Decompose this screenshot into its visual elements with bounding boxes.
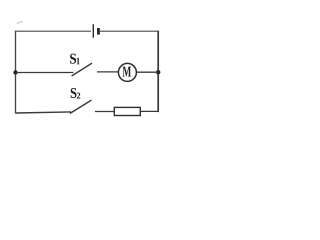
node left junction xyxy=(13,70,17,74)
label S1 xyxy=(70,54,76,64)
resistor R body xyxy=(114,107,140,115)
node right junction xyxy=(156,70,160,74)
motor U1 letter M xyxy=(123,67,131,77)
switch S1 blade xyxy=(72,63,92,76)
label S2 xyxy=(71,88,77,98)
battery cell long plate (+) xyxy=(92,24,94,38)
battery cell short thick plate (-) xyxy=(97,28,100,35)
wire bottom-center segment xyxy=(95,111,114,113)
switch S2 blade xyxy=(70,100,92,113)
wire top-left segment xyxy=(16,30,92,32)
wire top-right segment xyxy=(100,30,158,32)
wire bottom-right segment xyxy=(140,110,158,112)
wire middle-center segment xyxy=(97,71,118,73)
wire middle-right segment xyxy=(137,71,158,73)
wire bottom-left segment xyxy=(16,112,72,113)
wire middle-left segment xyxy=(16,72,74,74)
wire right vertical xyxy=(157,31,159,112)
motor U1 circle xyxy=(118,63,136,81)
faint scan smudge above top-left corner xyxy=(17,22,24,24)
wire left vertical xyxy=(15,31,17,114)
